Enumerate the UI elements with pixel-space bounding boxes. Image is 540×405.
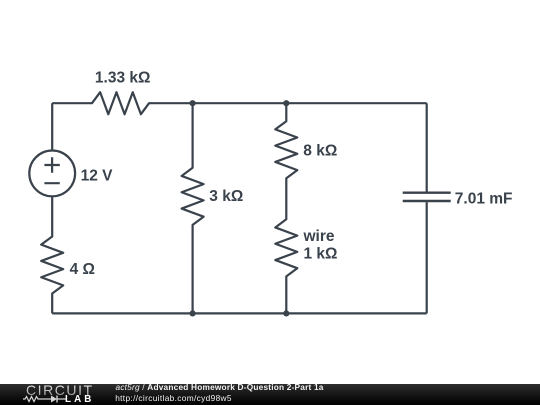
svg-text:1.33 kΩ: 1.33 kΩ <box>95 70 151 87</box>
svg-text:7.01 mF: 7.01 mF <box>455 191 513 208</box>
svg-text:8 kΩ: 8 kΩ <box>303 143 337 160</box>
svg-text:12 V: 12 V <box>81 167 114 184</box>
svg-text:3 kΩ: 3 kΩ <box>209 188 243 205</box>
svg-text:1 kΩ: 1 kΩ <box>304 245 338 262</box>
svg-text:wire: wire <box>303 228 335 245</box>
svg-text:4 Ω: 4 Ω <box>70 261 95 278</box>
